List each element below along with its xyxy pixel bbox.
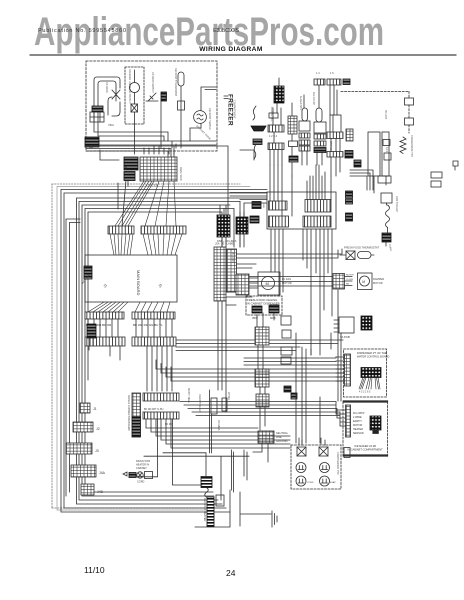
main harness connector grid bbox=[140, 157, 177, 181]
top strip B bbox=[327, 79, 341, 85]
small blob 2 bbox=[250, 216, 259, 223]
power cord terminal bbox=[258, 431, 274, 443]
defrost thermostat capsule bbox=[178, 72, 184, 86]
wires bottom center bbox=[144, 443, 268, 500]
signal connector dual column white bbox=[132, 393, 141, 417]
wire bundle blob upper bbox=[124, 157, 138, 170]
capsule lower box bbox=[178, 101, 185, 110]
striped heater element bbox=[207, 497, 214, 527]
stack B wires down bbox=[270, 78, 282, 165]
fan bundle into board (left) bbox=[110, 234, 133, 255]
svg-text:3 2 1: 3 2 1 bbox=[385, 147, 388, 153]
stack A grommet lens bbox=[251, 126, 266, 131]
motor circle 3 bbox=[296, 476, 306, 486]
black connector blob bbox=[382, 233, 391, 242]
svg-text:1 4: 1 4 bbox=[316, 71, 320, 75]
small black connector pair bbox=[284, 386, 291, 392]
svg-text:M: M bbox=[266, 281, 269, 286]
connector small mid bbox=[405, 118, 414, 125]
ground symbol bbox=[272, 511, 277, 527]
vertical white box K2 bbox=[222, 398, 227, 411]
top connector strip right bbox=[141, 226, 186, 234]
horizontal strip 1 bbox=[143, 393, 179, 401]
svg-text:FILL/WTR2 WIREEARTHMOTORHEATER: FILL/WTR2 WIREEARTHMOTORHEATERSENSOR bbox=[353, 412, 365, 435]
svg-text:M: M bbox=[362, 280, 365, 284]
stack F strip 1 bbox=[327, 132, 343, 139]
svg-text:IN CABINET COMPARTMENT: IN CABINET COMPARTMENT bbox=[347, 448, 383, 452]
door connector dot grid B bbox=[236, 217, 248, 234]
ff fan connector rows bbox=[236, 274, 249, 295]
stack E wires bbox=[317, 85, 322, 165]
edge connector outer box bbox=[267, 192, 336, 229]
connector small top bbox=[405, 98, 414, 105]
svg-text:DRN TROUGH: DRN TROUGH bbox=[395, 196, 398, 212]
right vertical pair bbox=[210, 390, 212, 453]
svg-text:BN: BN bbox=[346, 284, 349, 286]
svg-text:J3: J3 bbox=[158, 283, 163, 288]
svg-text:WH/BK: WH/BK bbox=[227, 392, 230, 400]
tiny mark top right bbox=[453, 161, 458, 170]
small rect low bbox=[384, 153, 391, 160]
wires bbox=[257, 313, 274, 430]
door switch wire loop bbox=[94, 77, 120, 118]
svg-text:CONN: CONN bbox=[388, 244, 392, 252]
ice maker grid bbox=[370, 416, 381, 430]
svg-text:ICE CRUSH: ICE CRUSH bbox=[312, 92, 315, 105]
right-going bus from lower strips bbox=[176, 340, 343, 351]
stack B strip 1 bbox=[268, 125, 284, 132]
x-box bbox=[346, 251, 355, 260]
small box right bbox=[216, 495, 224, 506]
bottom gather bus bbox=[90, 141, 216, 148]
lower connector strip left bbox=[85, 337, 125, 346]
wires from lower strips down bbox=[110, 346, 172, 391]
blob pair right of edge box bbox=[346, 191, 353, 198]
right tiny boxes pair bbox=[431, 172, 442, 178]
black blob H2 bbox=[345, 151, 353, 159]
motor circle 4 bbox=[320, 476, 330, 486]
bus entry wires from left bbox=[230, 193, 267, 248]
strip TL bbox=[269, 201, 288, 210]
svg-text:ICEMKR FILL: ICEMKR FILL bbox=[270, 107, 273, 122]
under-box bus lines bbox=[86, 146, 254, 216]
main board box bbox=[85, 255, 177, 302]
cells grid H bbox=[346, 129, 353, 141]
lower feed bundle to dispenser bbox=[156, 360, 345, 381]
lamp rays bbox=[112, 88, 120, 101]
chain box bbox=[381, 193, 392, 203]
capsule stem bbox=[180, 86, 182, 148]
loop bottom wires bbox=[94, 118, 168, 141]
damper motor box bbox=[358, 273, 373, 290]
stack D capsule bbox=[302, 108, 308, 121]
stack E black row bbox=[314, 148, 326, 153]
svg-text:Publication No. 5995545860: Publication No. 5995545860 bbox=[38, 28, 126, 34]
svg-text:DISPENSER PT. OF THE: DISPENSER PT. OF THE bbox=[357, 351, 387, 355]
svg-text:FF FAN: FF FAN bbox=[282, 277, 291, 281]
drain heater squiggle bbox=[386, 205, 390, 227]
drain circle X bbox=[137, 472, 143, 478]
svg-text:MOTOR: MOTOR bbox=[373, 281, 383, 285]
small black blob feed left bbox=[252, 202, 261, 209]
stack B dot grid bbox=[274, 86, 284, 103]
TA dot grid bbox=[361, 316, 372, 330]
feeds from left into ice box bbox=[180, 402, 346, 427]
strip TR bbox=[305, 200, 331, 213]
wire bundle blob lower bbox=[124, 172, 135, 181]
vertical spring zigzag bbox=[400, 137, 406, 154]
damper stub ticks bbox=[345, 277, 353, 286]
feeds from stacks above bbox=[270, 165, 331, 216]
wires down from J5 bbox=[218, 301, 226, 412]
svg-text:DEFROST HEATER: DEFROST HEATER bbox=[203, 498, 207, 522]
signal connector black part bbox=[132, 417, 141, 437]
svg-text:PN LIST: PN LIST bbox=[384, 110, 387, 120]
svg-text:SIGNAL CONNECTOR BOARD: SIGNAL CONNECTOR BOARD bbox=[127, 395, 130, 431]
drain box bbox=[145, 472, 153, 479]
board-left black connector bbox=[87, 324, 96, 338]
freezer light dashed box bbox=[125, 67, 144, 124]
tall box pair bbox=[368, 132, 380, 176]
svg-text:WATER CONTROL BOARD: WATER CONTROL BOARD bbox=[357, 354, 389, 358]
svg-text:11/10: 11/10 bbox=[84, 565, 105, 575]
light bulb J hook bbox=[108, 97, 120, 116]
bus line 2 bbox=[64, 193, 267, 508]
fresh food dashed box bbox=[246, 296, 282, 315]
freezer light switch x-box bbox=[131, 104, 138, 112]
freezer lamp circle bbox=[130, 83, 140, 93]
sealed system dashed box bbox=[291, 445, 341, 489]
stack D terminal rows bbox=[299, 133, 310, 138]
vertical pin strip short bbox=[227, 249, 237, 292]
stack E terminal rows bbox=[314, 134, 326, 139]
svg-text:J4B: J4B bbox=[97, 490, 104, 494]
svg-text:MAIN BOARD: MAIN BOARD bbox=[136, 270, 141, 295]
wires right from strips bbox=[226, 249, 342, 305]
svg-text:FZ DOOR: FZ DOOR bbox=[105, 82, 108, 93]
svg-text:DEFROST HEATER: DEFROST HEATER bbox=[208, 108, 211, 130]
svg-text:MOTOR: MOTOR bbox=[282, 281, 292, 285]
svg-text:DEFROST THERMOSTAT: DEFROST THERMOSTAT bbox=[174, 68, 177, 97]
small black blob bbox=[161, 92, 167, 101]
capsule bbox=[358, 252, 372, 259]
svg-text:COMPARTMENT: COMPARTMENT bbox=[233, 100, 236, 119]
svg-text:J5 CONN: J5 CONN bbox=[231, 252, 235, 263]
vertical pin strip tall bbox=[214, 247, 226, 301]
svg-text:E30BC90IS: E30BC90IS bbox=[213, 28, 239, 34]
lamp blob 2 bbox=[269, 305, 279, 313]
title rule bbox=[30, 54, 456, 56]
svg-text:74Ω: 74Ω bbox=[108, 123, 114, 127]
small rect on col bbox=[383, 140, 390, 146]
svg-text:FZ DOOR SWITCH: FZ DOOR SWITCH bbox=[151, 72, 154, 93]
stack B mid box bbox=[269, 113, 278, 118]
svg-text:COMPRESSOR PTC: COMPRESSOR PTC bbox=[336, 452, 339, 475]
stack E box bbox=[314, 122, 326, 133]
ice maker dashed box bbox=[343, 401, 388, 456]
svg-text:24: 24 bbox=[226, 568, 236, 578]
heater squiggle bbox=[205, 488, 209, 498]
svg-text:J3: J3 bbox=[95, 449, 99, 453]
bottom fan bundle right bbox=[135, 302, 170, 312]
drain arrow mark bbox=[123, 472, 127, 476]
vertical white box K1 bbox=[211, 398, 217, 414]
stack C black blob bbox=[289, 156, 298, 162]
svg-text:BK RD WH YL BU: BK RD WH YL BU bbox=[144, 408, 164, 411]
ice maker caption dark strip bbox=[344, 400, 387, 402]
svg-text:60W: 60W bbox=[270, 316, 276, 320]
connector J4B bbox=[81, 484, 94, 495]
wires bbox=[249, 278, 258, 288]
fan bundle into board (right) bbox=[143, 234, 182, 255]
exit wires to lower bus bbox=[135, 97, 167, 154]
grid fan down to board strips bbox=[115, 181, 176, 226]
circle stem and wires bbox=[190, 87, 216, 141]
ff fan motor circle bbox=[262, 277, 275, 290]
svg-text:1 2 3 4: 1 2 3 4 bbox=[269, 134, 277, 138]
stack D box bbox=[299, 121, 310, 131]
bracket box right bbox=[344, 448, 350, 458]
box bottom feeds down bbox=[271, 229, 332, 355]
svg-text:OR 18GA: OR 18GA bbox=[217, 420, 220, 431]
svg-text:J4A: J4A bbox=[99, 471, 106, 475]
bus line 3 bbox=[77, 198, 268, 504]
bottom L to ground bbox=[195, 490, 271, 527]
svg-text:J2: J2 bbox=[103, 283, 108, 288]
heater component box bbox=[201, 477, 212, 488]
black blob I bbox=[354, 160, 361, 167]
strip BL bbox=[269, 216, 289, 227]
bus line 6 bbox=[88, 212, 222, 380]
lamp wires bbox=[134, 70, 136, 124]
stack A squiggle whip bbox=[253, 106, 256, 120]
stack F strip 2 bbox=[327, 152, 343, 158]
chain wires bbox=[374, 176, 388, 246]
blob wires bbox=[100, 150, 128, 226]
svg-text:BK/WH 18GA: BK/WH 18GA bbox=[187, 388, 190, 403]
TA PCB box bbox=[339, 317, 354, 333]
top connector strip left bbox=[108, 226, 134, 234]
dispenser dot grid bbox=[361, 368, 381, 378]
dispenser dashed box bbox=[344, 349, 387, 397]
svg-text:COND: COND bbox=[307, 482, 314, 484]
svg-text:MAIN HARN: MAIN HARN bbox=[179, 167, 182, 181]
long verticals down bbox=[129, 419, 202, 485]
svg-text:NEUTRAL: NEUTRAL bbox=[276, 431, 289, 435]
small white box right bbox=[378, 176, 391, 183]
svg-text:J1: J1 bbox=[93, 407, 97, 411]
dispenser left pin header bbox=[345, 354, 351, 386]
connector J4A bbox=[71, 465, 96, 477]
connector J3 bbox=[66, 443, 92, 454]
svg-text:CONDENSATE HTR: CONDENSATE HTR bbox=[410, 135, 413, 157]
svg-text:GND: GND bbox=[262, 203, 264, 208]
top stubs bbox=[299, 438, 325, 445]
bus line 5 short bends to J5 bbox=[82, 202, 240, 497]
stack A black blob bbox=[253, 139, 262, 145]
ff fan motor box bbox=[258, 272, 280, 295]
stack B strip 2 bbox=[268, 143, 284, 150]
top strip A bbox=[314, 79, 325, 85]
horizontal strip 2 bbox=[143, 412, 179, 419]
L routing thick bbox=[350, 170, 373, 190]
stack D wires bbox=[302, 95, 307, 165]
grid wires up into freezer bus bbox=[144, 146, 174, 154]
motor circle 2 bbox=[320, 463, 330, 473]
inner rect around board bbox=[66, 219, 80, 496]
freezer compartment dashed box bbox=[86, 61, 217, 151]
wire stubs between strips bbox=[88, 319, 172, 337]
motor circle 1 bbox=[296, 463, 306, 473]
svg-text:RD/WH: RD/WH bbox=[346, 275, 354, 277]
svg-text:ICE MAKER 24.2B: ICE MAKER 24.2B bbox=[354, 444, 376, 448]
grid feed wires bbox=[220, 205, 244, 247]
door connector dot grid A bbox=[217, 215, 230, 237]
svg-text:AUGER MTR: AUGER MTR bbox=[299, 96, 302, 111]
damper connector rows bbox=[333, 274, 345, 290]
drain black piece bbox=[129, 473, 136, 478]
dotted outer cabinet boundary bbox=[52, 184, 240, 508]
bus line 1 bbox=[61, 190, 267, 513]
door switch connector (black) bbox=[92, 106, 103, 112]
svg-text:WIRING DIAGRAM: WIRING DIAGRAM bbox=[199, 46, 263, 53]
verticals feeding dispenser bbox=[302, 333, 331, 443]
strip BR bbox=[303, 216, 331, 227]
svg-text:FRESH FOOD THERMOSTAT: FRESH FOOD THERMOSTAT bbox=[344, 246, 380, 250]
AC line connector on board bbox=[84, 266, 92, 279]
dispenser feed horizontals bbox=[244, 290, 341, 401]
svg-text:4 3 2 1 6 5: 4 3 2 1 6 5 bbox=[359, 391, 371, 394]
bottom connector strip right bbox=[132, 312, 175, 319]
svg-text:DRAIN TROUGH: DRAIN TROUGH bbox=[198, 394, 201, 413]
bottom-left black connector bbox=[85, 137, 99, 147]
top black square bbox=[343, 79, 350, 85]
bottom connector strip left bbox=[85, 312, 124, 319]
stack F tall box bbox=[330, 115, 341, 134]
connector J2 bbox=[73, 422, 93, 432]
gray boundary 2 bbox=[57, 187, 250, 511]
stack C small rect bbox=[289, 141, 298, 147]
bus line 4 bbox=[79, 202, 240, 501]
svg-text:1 6: 1 6 bbox=[330, 71, 334, 75]
svg-text:YL/WH: YL/WH bbox=[346, 279, 353, 281]
damper motor circle bbox=[360, 276, 370, 286]
dashed run to right bbox=[341, 91, 409, 93]
svg-text:DRAIN WTRHEATER INCABINET: DRAIN WTRHEATER INCABINET bbox=[136, 460, 150, 470]
svg-text:CORD: CORD bbox=[137, 481, 145, 484]
svg-text:DAMPER: DAMPER bbox=[373, 277, 384, 281]
stack F wires bbox=[330, 85, 340, 176]
x-box 2 bbox=[319, 447, 328, 456]
connector J1 bbox=[80, 403, 90, 413]
extra vertical bbox=[295, 333, 297, 443]
defrost heater circle bbox=[194, 111, 207, 124]
stack C wires bbox=[291, 103, 293, 176]
svg-text:BK RD: BK RD bbox=[165, 423, 173, 426]
lower connectors bbox=[255, 327, 269, 345]
stack A tail squiggle bbox=[254, 144, 256, 159]
tiny mark near freezer edge bbox=[224, 96, 228, 99]
terminal block bbox=[90, 112, 104, 122]
svg-text:J2: J2 bbox=[96, 427, 100, 431]
svg-text:TA PCB: TA PCB bbox=[340, 335, 350, 339]
bottom fan bundle left bbox=[88, 302, 128, 312]
svg-text:EVAP: EVAP bbox=[330, 481, 336, 484]
dashed vertical right bbox=[408, 92, 410, 134]
door sw lever symbol bbox=[146, 93, 158, 101]
descending wires from strip2 bending right bbox=[146, 419, 290, 448]
dispenser fan wires bbox=[359, 378, 380, 390]
svg-text:DISP + DR LINES: DISP + DR LINES bbox=[217, 240, 237, 243]
x-box 1 bbox=[297, 447, 306, 456]
stack E capsule bbox=[316, 108, 322, 122]
stub wires bbox=[340, 254, 374, 256]
stack C tall cell box bbox=[288, 116, 297, 134]
lamp blob 1 bbox=[252, 306, 262, 313]
lower connector strip right bbox=[132, 337, 176, 346]
